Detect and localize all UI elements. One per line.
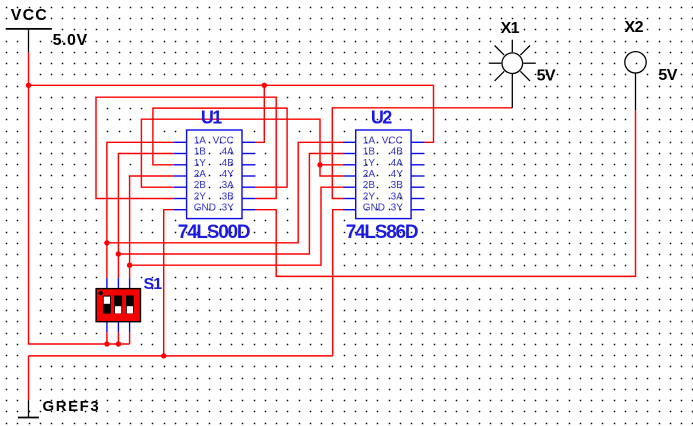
svg-text:4Y: 4Y	[391, 169, 404, 180]
svg-text:2Y: 2Y	[363, 192, 376, 203]
pin U2 2B	[343, 186, 356, 188]
pin U1 2Y	[174, 198, 187, 200]
pin U1 4A	[242, 153, 255, 155]
pin U1 2B	[174, 186, 187, 188]
wire S1 pin1 to U1 1A	[107, 142, 174, 278]
svg-text:2Y: 2Y	[194, 192, 207, 203]
svg-text:GND: GND	[363, 203, 385, 214]
svg-text:1A: 1A	[194, 135, 207, 146]
lamp X2	[625, 52, 646, 111]
svg-text:5V: 5V	[658, 67, 677, 84]
svg-text:1B: 1B	[363, 147, 376, 158]
wire VCC rail y=85	[29, 84, 434, 86]
svg-text:74LS86D: 74LS86D	[346, 222, 418, 243]
svg-text:1Y: 1Y	[363, 158, 376, 169]
pin U2 2A	[343, 175, 356, 177]
pin S1 bot3	[129, 322, 131, 333]
wire S1 pin3 branch to U2 2B	[130, 187, 343, 265]
svg-text:4B: 4B	[222, 158, 235, 169]
wire U1 1Y to U1 3A	[153, 108, 287, 187]
svg-text:4B: 4B	[391, 147, 404, 158]
wire S1 pin3 to U1 2A	[130, 176, 174, 278]
svg-text:X1: X1	[501, 20, 520, 37]
svg-text:2B: 2B	[363, 180, 376, 191]
pin U2 1A	[343, 141, 356, 143]
pin S1 bot1	[106, 322, 108, 333]
wire U2 1Y branch to U2 2A	[320, 165, 343, 176]
ground GREF3 symbol	[18, 400, 39, 417]
pin labels U2 left	[363, 135, 385, 213]
pin U1 VCC	[242, 141, 255, 143]
svg-text:VCC: VCC	[11, 7, 48, 24]
pin U1 3B	[242, 198, 255, 200]
svg-text:5V: 5V	[537, 67, 556, 84]
svg-text:GND: GND	[194, 203, 216, 214]
svg-text:VCC: VCC	[213, 135, 234, 146]
switch S1 rocker 1	[103, 296, 111, 314]
pin U1 4B	[242, 164, 255, 166]
svg-text:4A: 4A	[391, 158, 404, 169]
switch S1 rocker 2	[114, 296, 122, 314]
wire VCC left vertical to S1 bottom rail	[29, 85, 130, 344]
svg-text:5.0V: 5.0V	[53, 32, 88, 49]
pin S1 top3	[129, 278, 131, 289]
wire U2 2Y to lamp X1	[332, 108, 512, 199]
wire U2 1Y to U1 2B	[141, 119, 343, 187]
pin U2 1Y	[343, 164, 356, 166]
wire S1 bottom pin3 riser	[129, 332, 131, 344]
pin U2 2Y	[343, 198, 356, 200]
pin S1 top1	[106, 278, 108, 289]
pin U2 3A	[411, 198, 424, 200]
svg-text:VCC: VCC	[382, 135, 403, 146]
lamp X1	[489, 40, 536, 108]
junction S1 pin1 branch	[104, 240, 109, 245]
pin U2 GND	[343, 209, 356, 211]
wire VCC to U1 VCC pin	[255, 85, 264, 142]
svg-text:4A: 4A	[222, 147, 235, 158]
junction VCC rail U1	[262, 83, 267, 88]
junction S1 pin3 branch	[127, 263, 132, 268]
pin U2 3Y	[411, 209, 424, 211]
switch S1 rocker 3	[126, 296, 134, 314]
op IC U1 74LS00D	[174, 108, 256, 243]
power VCC symbol	[6, 29, 52, 52]
wire S1 pin2 to U1 1B	[118, 154, 173, 279]
pin U2 VCC	[411, 141, 424, 143]
svg-text:1A: 1A	[363, 135, 376, 146]
pin U2 4Y	[411, 175, 424, 177]
svg-text:4Y: 4Y	[222, 169, 235, 180]
junction S1 bottom rail pin2	[116, 341, 121, 346]
pin labels U1 right	[213, 135, 234, 213]
switch S1 pin1 marker	[98, 291, 102, 295]
IC U2 body	[356, 130, 411, 219]
wire S1 pin2 branch to U2 1B	[118, 154, 343, 255]
pin labels U1 left	[194, 135, 216, 213]
pin U1 4Y	[242, 175, 255, 177]
junction VCC rail left	[26, 83, 31, 88]
pin S1 top2	[117, 278, 119, 289]
wire ground to U1 GND	[164, 210, 174, 356]
wire S1 pin1 branch to U2 1A	[107, 142, 343, 243]
pin U2 1B	[343, 153, 356, 155]
pin U2 4A	[411, 164, 424, 166]
svg-text:2A: 2A	[363, 169, 376, 180]
wire ground to U2 GND	[333, 210, 343, 356]
svg-text:2B: 2B	[194, 180, 207, 191]
pin U1 2A	[174, 175, 187, 177]
junction S1 pin2 branch	[116, 251, 121, 256]
svg-text:X2: X2	[625, 19, 644, 36]
pin U1 1A	[174, 141, 187, 143]
svg-text:3A: 3A	[222, 180, 235, 191]
svg-text:3A: 3A	[391, 192, 404, 203]
svg-text:S1: S1	[144, 276, 163, 293]
svg-text:3Y: 3Y	[222, 203, 235, 214]
switch S1 body	[96, 289, 140, 322]
pin S1 bot2	[117, 322, 119, 333]
op IC U2 74LS86D	[343, 108, 425, 243]
junction ground rail U1	[161, 353, 166, 358]
svg-text:74LS00D: 74LS00D	[178, 222, 250, 243]
svg-text:3B: 3B	[391, 180, 404, 191]
pin U1 3Y	[242, 209, 255, 211]
svg-text:3B: 3B	[222, 192, 235, 203]
wire VCC symbol lead	[28, 52, 30, 85]
junction U2 1Y branch	[317, 162, 322, 167]
svg-text:1Y: 1Y	[194, 158, 207, 169]
pin U2 3B	[411, 186, 424, 188]
pin U2 4B	[411, 153, 424, 155]
svg-text:1B: 1B	[194, 147, 207, 158]
svg-text:GREF3: GREF3	[43, 398, 101, 415]
wire S1 bottom pin2 stub riser	[117, 332, 119, 344]
svg-text:2A: 2A	[194, 169, 207, 180]
IC U1 body	[187, 130, 242, 219]
pin U1 1Y	[174, 164, 187, 166]
junction S1 bottom rail pin1	[104, 341, 109, 346]
svg-text:U1: U1	[201, 108, 222, 128]
pin U1 GND	[174, 209, 187, 211]
pin U1 3A	[242, 186, 255, 188]
wire ground rail y=355.9	[29, 355, 333, 357]
wire U1 2Y to U1 3B	[96, 97, 276, 198]
pin labels U2 right	[382, 135, 403, 213]
pin U1 1B	[174, 153, 187, 155]
wire U1 3Y to lamp X2	[255, 110, 635, 276]
wire S1 bottom pin1 stub riser	[106, 332, 108, 344]
svg-text:U2: U2	[371, 108, 392, 128]
wire VCC to U2 VCC pin	[424, 85, 434, 142]
switch S1 DIP	[96, 276, 162, 332]
wire ground lead	[28, 356, 30, 400]
svg-text:3Y: 3Y	[391, 203, 404, 214]
